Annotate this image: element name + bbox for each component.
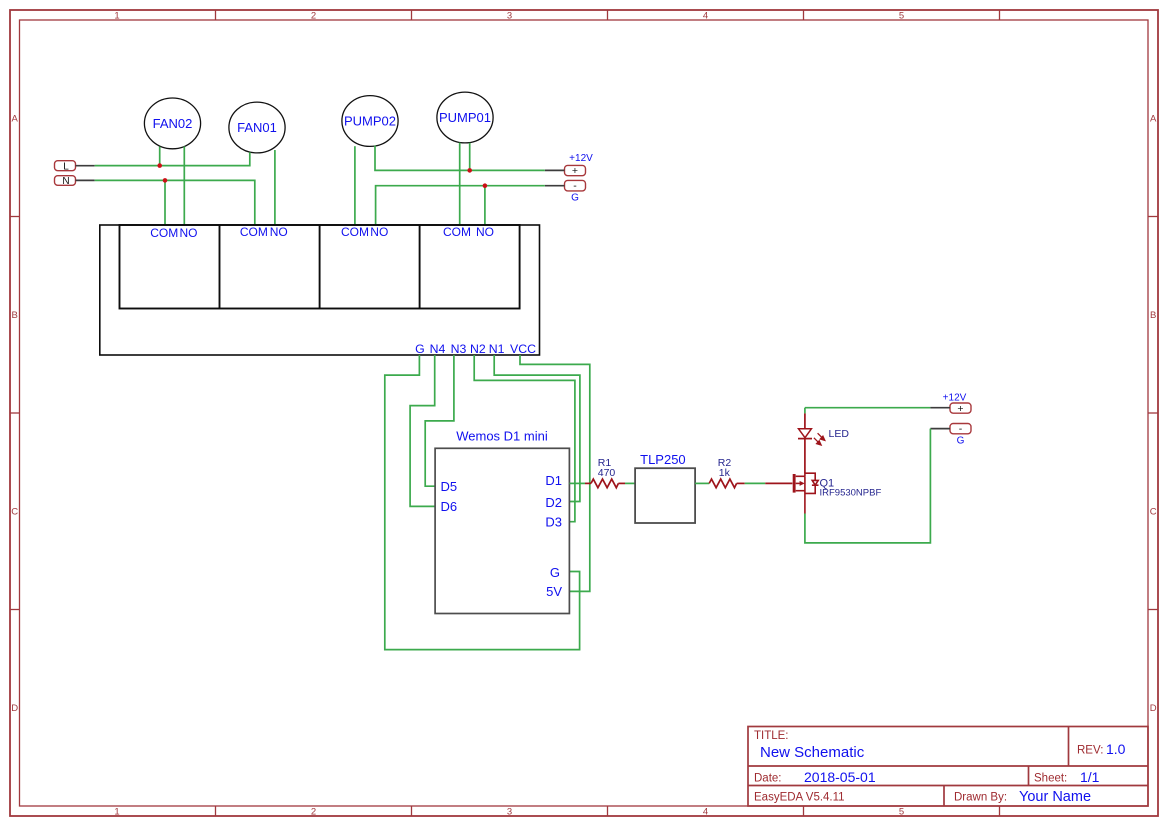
svg-text:N: N [62, 176, 69, 187]
svg-text:2: 2 [311, 11, 316, 22]
title block text [754, 730, 1103, 804]
wire FAN02 right to NO1 [183, 146, 185, 225]
svg-text:G: G [550, 565, 560, 580]
wire N3 to D5 [425, 355, 454, 486]
wire N2 to D3 [474, 355, 575, 522]
resistor R1 [585, 479, 625, 488]
wire PUMP02 left to COM3 [354, 146, 356, 225]
terminal minus G (right) [930, 423, 971, 446]
resistor R2 [709, 479, 745, 488]
wire PUMP02 right to +12 rail [375, 146, 545, 171]
svg-text:5: 5 [899, 11, 904, 22]
svg-text:LED: LED [829, 428, 850, 440]
svg-text:+: + [957, 403, 963, 415]
motor PUMP02 [342, 96, 398, 147]
svg-text:G: G [415, 342, 425, 356]
svg-text:470: 470 [598, 467, 616, 479]
svg-text:B: B [1150, 310, 1156, 321]
junction dot minus/NO4 [483, 183, 488, 188]
wire minus down loop to Q1 source [805, 429, 931, 543]
wire COM1 stub [164, 180, 166, 225]
wire FAN02 left to L [159, 147, 161, 166]
relay channels box [120, 225, 520, 309]
svg-text:N4: N4 [430, 342, 446, 356]
relay module outer box [100, 225, 540, 355]
svg-text:+12V: +12V [569, 153, 593, 164]
svg-text:FAN02: FAN02 [153, 116, 193, 131]
terminal L [55, 161, 95, 173]
wire L line [95, 152, 250, 165]
wire FAN01 right to NO2 [274, 150, 276, 225]
svg-text:L: L [63, 161, 69, 172]
svg-text:2: 2 [311, 807, 316, 818]
wire TLP250 to R2 [695, 482, 709, 484]
svg-text:EasyEDA V5.4.11: EasyEDA V5.4.11 [754, 792, 845, 804]
svg-text:C: C [1150, 507, 1157, 518]
svg-text:G: G [957, 435, 965, 446]
wire VCC to 5V [520, 355, 590, 591]
diode LED [798, 413, 812, 473]
svg-text:Date:: Date: [754, 773, 782, 785]
terminal N [55, 176, 95, 187]
Wemos D1 mini box [435, 448, 569, 613]
wire D1 to R1 [569, 482, 585, 484]
svg-text:Your Name: Your Name [1019, 789, 1091, 805]
svg-text:D: D [1150, 703, 1157, 714]
svg-text:D2: D2 [545, 495, 562, 510]
svg-text:NO: NO [270, 225, 288, 239]
svg-text:1/1: 1/1 [1080, 769, 1100, 785]
svg-text:N3: N3 [451, 342, 467, 356]
svg-text:C: C [11, 507, 18, 518]
svg-text:D5: D5 [441, 479, 458, 494]
motor FAN02 [144, 98, 200, 149]
title block [748, 727, 1148, 807]
wire R1 to TLP250 [625, 482, 635, 484]
svg-text:1k: 1k [719, 467, 731, 479]
relay channel dividers [220, 225, 420, 309]
svg-text:COM: COM [240, 225, 268, 239]
svg-text:1: 1 [114, 807, 119, 818]
svg-text:A: A [12, 114, 19, 125]
svg-text:D1: D1 [545, 473, 562, 488]
svg-text:Wemos D1 mini: Wemos D1 mini [456, 429, 548, 444]
wire N line [95, 180, 255, 225]
svg-text:D6: D6 [441, 499, 458, 514]
svg-text:PUMP01: PUMP01 [439, 110, 491, 125]
svg-text:1.0: 1.0 [1106, 741, 1126, 757]
relay COM NO labels [150, 225, 494, 240]
svg-text:TITLE:: TITLE: [754, 730, 789, 742]
svg-text:1: 1 [114, 11, 119, 22]
svg-text:-: - [573, 180, 577, 192]
motor FAN01 [229, 102, 285, 153]
wire PUMP01 right to +12 rail [469, 143, 471, 171]
svg-text:4: 4 [703, 807, 708, 818]
svg-text:Sheet:: Sheet: [1034, 773, 1067, 785]
wire minus rail to NO3 [376, 186, 545, 225]
junction dot +12/PUMP01 [467, 168, 472, 173]
svg-text:TLP250: TLP250 [640, 452, 686, 467]
svg-text:G: G [571, 192, 579, 203]
junction dot N/COM1 [163, 178, 168, 183]
svg-text:NO: NO [476, 225, 494, 239]
terminal minus G (relay rail) [545, 180, 586, 203]
svg-text:COM: COM [341, 225, 369, 239]
svg-text:D3: D3 [545, 514, 562, 529]
svg-text:REV:: REV: [1077, 745, 1103, 757]
relay pin labels G N4 N3 N2 N1 VCC [415, 342, 536, 356]
svg-text:+: + [572, 165, 578, 177]
svg-text:5V: 5V [546, 584, 562, 599]
transistor Q1 IRF9530NPBF [793, 473, 819, 513]
svg-text:-: - [959, 423, 963, 435]
svg-text:NO: NO [370, 225, 388, 239]
svg-text:N2: N2 [470, 342, 486, 356]
wire N4 to D6 [410, 355, 435, 506]
wire relay G loop to Wemos G [385, 355, 580, 650]
svg-text:2018-05-01: 2018-05-01 [804, 769, 876, 785]
terminal +12V plus (right) [930, 393, 971, 415]
svg-text:VCC: VCC [510, 342, 536, 356]
svg-text:3: 3 [507, 11, 512, 22]
wire R2 to Q1 gate [745, 482, 766, 484]
LED arrows [814, 433, 825, 445]
junction dot L/FAN02 [157, 163, 162, 168]
svg-text:Drawn By:: Drawn By: [954, 792, 1007, 804]
svg-text:COM: COM [443, 225, 471, 239]
svg-text:5: 5 [899, 807, 904, 818]
Wemos pin labels [441, 473, 563, 599]
wire LED top stub [804, 408, 806, 414]
wire gate red segment [765, 482, 792, 484]
wire +12V top rail [805, 407, 931, 409]
svg-text:FAN01: FAN01 [237, 120, 277, 135]
svg-text:3: 3 [507, 807, 512, 818]
svg-text:NO: NO [180, 226, 198, 240]
svg-text:New Schematic: New Schematic [760, 744, 865, 761]
svg-text:PUMP02: PUMP02 [344, 114, 396, 129]
svg-text:D: D [11, 703, 18, 714]
svg-text:IRF9530NPBF: IRF9530NPBF [820, 488, 882, 499]
terminal +12V plus (relay rail) [545, 153, 593, 177]
opto TLP250 box [635, 468, 695, 523]
svg-text:N1: N1 [489, 342, 505, 356]
svg-text:A: A [1150, 114, 1157, 125]
wire minus rail to NO4 [484, 186, 486, 225]
wire PUMP01 left to COM4 [459, 143, 461, 225]
svg-text:4: 4 [703, 11, 708, 22]
wire N1 to D2 [494, 355, 580, 502]
svg-text:COM: COM [150, 226, 178, 240]
svg-text:B: B [12, 310, 18, 321]
motor PUMP01 [437, 92, 493, 143]
